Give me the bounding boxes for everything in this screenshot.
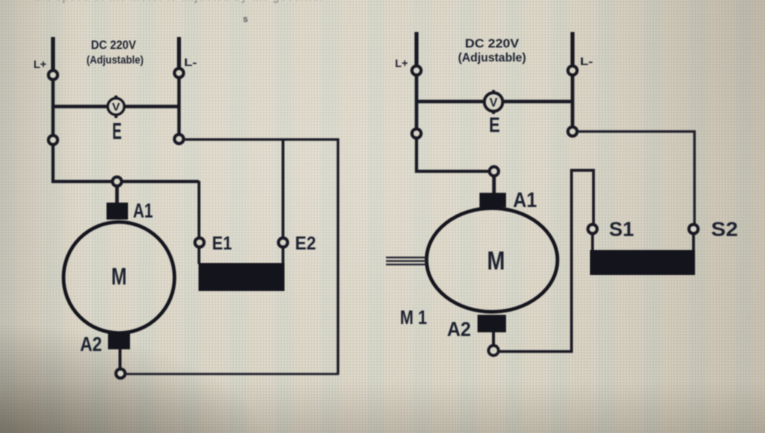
terminal L- (right) bbox=[568, 66, 577, 75]
motor M1 (right) bbox=[427, 208, 558, 312]
wire L+ column to armature row (right) bbox=[417, 138, 490, 171]
wire E1 drop (left) bbox=[198, 181, 201, 238]
svg-text:the speed of the motor is adju: the speed of the motor is adjusted by th… bbox=[34, 0, 324, 4]
svg-text:L+: L+ bbox=[395, 58, 408, 70]
svg-text:A1: A1 bbox=[133, 201, 153, 223]
terminal A2 node (left) bbox=[116, 369, 125, 378]
wire L+ vertical (left) bbox=[51, 80, 54, 136]
voltmeter V (right) bbox=[484, 90, 502, 114]
voltmeter wire (right) bbox=[417, 100, 573, 103]
svg-text:DC 220V: DC 220V bbox=[465, 37, 519, 51]
terminal L+ (left) bbox=[48, 70, 57, 79]
svg-text:(Adjustable): (Adjustable) bbox=[458, 53, 526, 65]
node on L+ column (right) bbox=[412, 129, 421, 138]
svg-text:V: V bbox=[490, 97, 498, 109]
terminal S2 bbox=[689, 224, 698, 233]
terminal A2 block (right) bbox=[478, 315, 507, 333]
wire L- supply drop (left) bbox=[177, 37, 181, 69]
voltmeter V (left) bbox=[108, 96, 125, 119]
node on L- column (left) bbox=[174, 134, 183, 143]
wire junction to A1 (right) bbox=[492, 176, 496, 194]
svg-text:L+: L+ bbox=[34, 59, 47, 71]
terminal S1 bbox=[588, 224, 597, 233]
wire L+ supply drop (right) bbox=[415, 32, 419, 66]
terminal A1 block (right) bbox=[480, 193, 507, 208]
terminal L+ (right) bbox=[412, 66, 421, 75]
svg-text:M 1: M 1 bbox=[400, 307, 427, 329]
svg-text:E2: E2 bbox=[295, 234, 316, 254]
wire L- supply drop (right) bbox=[571, 32, 575, 66]
wire L- node to right return (left) bbox=[184, 140, 338, 375]
svg-text:s: s bbox=[243, 14, 248, 24]
wire E2 branch (left) bbox=[282, 140, 285, 239]
wire junction to A1 (left) bbox=[115, 187, 119, 203]
svg-text:M: M bbox=[487, 246, 505, 276]
svg-text:L-: L- bbox=[184, 57, 197, 69]
wire L+ vertical (right) bbox=[415, 75, 419, 129]
terminal A2 block (left) bbox=[108, 333, 130, 350]
wire E1 to field (left) bbox=[198, 247, 201, 264]
wire L+ supply drop (left) bbox=[51, 37, 55, 71]
shaft lines (right motor) bbox=[386, 258, 427, 265]
node junction to A1 (left) bbox=[112, 177, 121, 186]
terminal E1 (left) bbox=[195, 238, 204, 247]
svg-text:S1: S1 bbox=[609, 219, 634, 241]
wire A2 stub (right) bbox=[492, 332, 495, 346]
node junction to A1 (right) bbox=[489, 167, 498, 176]
wire E2 to field (left) bbox=[282, 247, 285, 264]
svg-text:E: E bbox=[489, 114, 500, 137]
field winding S1-S2 block bbox=[590, 250, 695, 275]
cut-off text line at top bbox=[34, 0, 324, 4]
svg-text:S2: S2 bbox=[711, 219, 738, 241]
wire S1 to field (right) bbox=[591, 234, 594, 252]
svg-text:E: E bbox=[112, 118, 122, 144]
svg-text:(Adjustable): (Adjustable) bbox=[87, 55, 144, 67]
terminal A2 node (right) bbox=[489, 346, 499, 356]
node on L+ column (left) bbox=[48, 135, 57, 144]
terminal E2 (left) bbox=[278, 238, 287, 247]
wire A2 to S1 riser (right) bbox=[499, 170, 594, 351]
svg-text:DC 220V: DC 220V bbox=[91, 40, 136, 52]
svg-text:E1: E1 bbox=[212, 234, 232, 254]
wire L- vertical (right) bbox=[571, 75, 575, 127]
terminal L- (left) bbox=[174, 68, 183, 77]
wire A2 stub (left) bbox=[119, 349, 122, 369]
svg-text:A2: A2 bbox=[80, 334, 102, 356]
wire L- node to S2 (right) bbox=[577, 132, 694, 226]
svg-text:M: M bbox=[111, 264, 127, 291]
wire L+ column to armature row (left) bbox=[53, 145, 199, 182]
wire S2 to field (right) bbox=[692, 234, 695, 252]
svg-text:L-: L- bbox=[580, 56, 593, 68]
node on L- column (right) bbox=[568, 127, 577, 136]
voltmeter wire (left) bbox=[53, 105, 179, 108]
wire bottom return (left) bbox=[125, 373, 339, 375]
svg-text:V: V bbox=[112, 102, 121, 114]
field winding E1-E2 block bbox=[199, 263, 285, 291]
terminal A1 block (left) bbox=[107, 203, 129, 220]
motor M (left) bbox=[64, 222, 175, 333]
wire L- vertical (left) bbox=[177, 78, 180, 135]
svg-text:A2: A2 bbox=[447, 319, 471, 341]
svg-text:A1: A1 bbox=[513, 189, 537, 212]
